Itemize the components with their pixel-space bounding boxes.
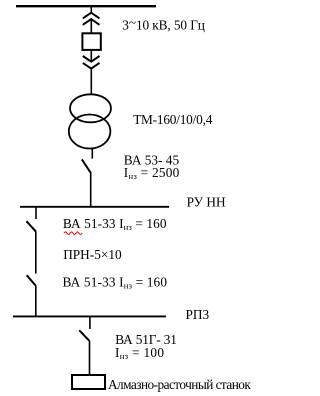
wire: breaker QF1 to RU NN bus: [90, 172, 92, 207]
svg-text:ПРН-5×10: ПРН-5×10: [63, 247, 122, 262]
breaker QF2 blade: [26, 221, 36, 231]
svg-text:ВА 51-33 Iнз = 160: ВА 51-33 Iнз = 160: [63, 216, 167, 232]
wire: fuse to arrows: [90, 51, 92, 62]
breaker QF1 blade: [82, 159, 91, 172]
wire: arrows to transformer: [90, 69, 92, 95]
wire: QF2 to QF3: [35, 231, 37, 273]
wire: shaft to fuse: [90, 20, 92, 34]
load box (machine): [72, 375, 105, 389]
top busbar 10 kV: [16, 5, 156, 7]
svg-text:РУ НН: РУ НН: [187, 194, 226, 209]
incoming-line chevron 1 (up): [83, 13, 100, 19]
svg-text:ВА 51-33 Iнз = 160: ВА 51-33 Iнз = 160: [63, 274, 168, 290]
transformer T1 primary winding: [70, 94, 111, 122]
busbar RP3: [13, 315, 166, 317]
svg-text:3~10 кВ, 50 Гц: 3~10 кВ, 50 Гц: [122, 15, 205, 32]
svg-text:РП3: РП3: [186, 307, 210, 322]
wire: QF3 to RP3 bus: [35, 286, 37, 317]
wire: drop from top busbar: [90, 7, 92, 14]
wire: stub from RP3 bus: [89, 317, 91, 329]
fuse FU (box): [82, 33, 100, 50]
svg-text:Iнз = 100: Iнз = 100: [115, 345, 164, 361]
outgoing chevron 2 (down): [83, 63, 100, 69]
incoming-line chevron 2 (up): [83, 19, 100, 25]
spellcheck squiggle under VA: [64, 232, 82, 235]
wire: stub from RU NN bus: [35, 207, 37, 219]
breaker QF3 blade: [27, 275, 36, 286]
outgoing chevron 1 (down): [83, 56, 100, 62]
busbar RU NN: [20, 206, 169, 208]
transformer T1 secondary winding: [69, 115, 111, 149]
wire: QF4 to load: [89, 341, 91, 375]
svg-text:Алмазно-расточный станок: Алмазно-расточный станок: [108, 377, 251, 392]
svg-text:ТМ-160/10/0,4: ТМ-160/10/0,4: [133, 112, 212, 127]
breaker QF4 blade: [79, 330, 89, 340]
wire: transformer to breaker QF1: [91, 148, 93, 158]
